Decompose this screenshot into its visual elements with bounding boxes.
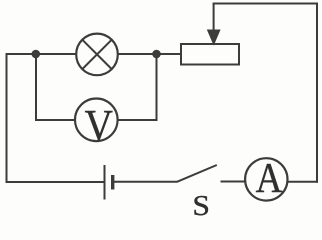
battery long plate — [104, 165, 106, 200]
wire voltmeter left branch horizontal — [35, 119, 76, 121]
svg-text:V: V — [85, 102, 113, 151]
rheostat R1 arrowhead — [207, 30, 221, 46]
wire voltmeter right branch horizontal — [118, 119, 158, 121]
switch S fixed contact wire — [221, 181, 246, 183]
wire bottom-left horizontal — [7, 181, 104, 183]
node junction dot right — [152, 50, 161, 59]
rheostat R1 slider stem — [213, 4, 215, 33]
wire lamp to rheostat horizontal — [118, 53, 182, 55]
wire right vertical — [316, 3, 318, 183]
ammeter A1 circle — [245, 158, 287, 200]
wire voltmeter right branch vertical — [156, 54, 158, 121]
rheostat R1 body — [181, 44, 239, 65]
voltmeter V1 circle — [75, 99, 118, 142]
svg-text:A: A — [256, 155, 283, 202]
lamp L1 cross — [82, 40, 111, 69]
wire top-right horizontal — [213, 3, 317, 5]
wire ammeter to right vertical — [287, 181, 318, 183]
battery short plate — [111, 175, 114, 190]
lamp L1 circle — [76, 34, 118, 76]
wire top-left horizontal — [6, 53, 77, 55]
wire left vertical — [6, 53, 8, 183]
wire battery to switch — [113, 181, 178, 183]
svg-text:S: S — [192, 189, 210, 219]
switch S blade — [177, 165, 217, 182]
node junction dot left — [32, 50, 41, 59]
wire voltmeter left branch vertical — [35, 54, 37, 121]
